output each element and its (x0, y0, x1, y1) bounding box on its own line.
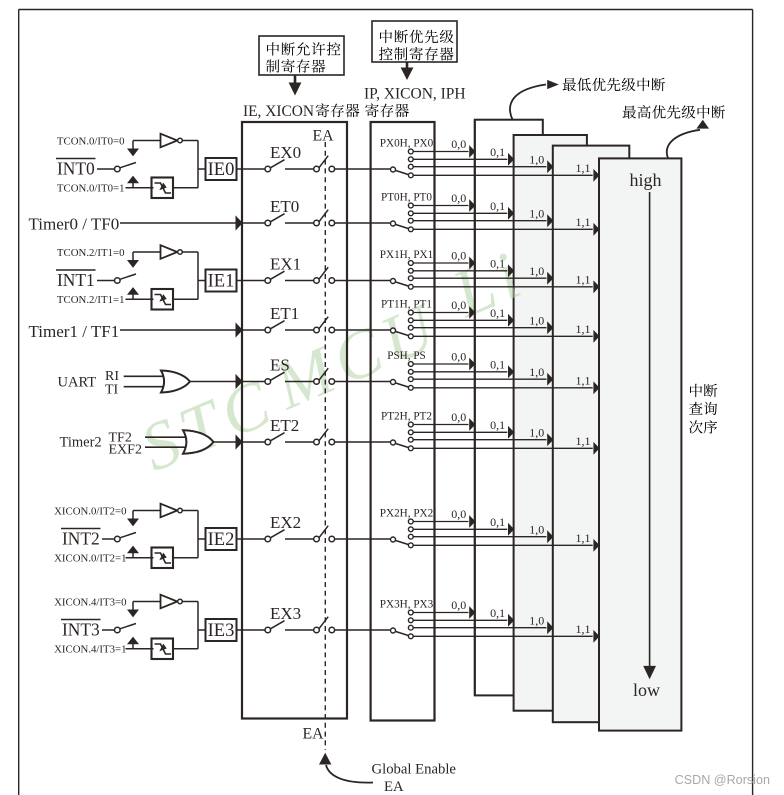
selector pole PT0H, PT0 (391, 221, 409, 229)
switch INT1 edge/level select (115, 274, 137, 283)
wire ET1 to EA switch (285, 329, 314, 331)
wire RI input (124, 375, 166, 377)
svg-text:1,0: 1,0 (529, 206, 544, 220)
label EX1 0,1 (490, 257, 505, 271)
label EX1 1,0 (529, 264, 544, 278)
svg-text:1,0: 1,0 (529, 522, 544, 536)
wire join vertical (197, 252, 199, 299)
down arrow level select (127, 252, 139, 268)
svg-text:1,1: 1,1 (576, 215, 591, 229)
interrupt-enable register callout box (259, 36, 344, 75)
wire ET2 priority 0,0 (413, 418, 475, 431)
switch EA row ES (314, 368, 335, 384)
IE2 flag box (206, 528, 237, 550)
switch ET0 (265, 214, 285, 226)
switch ES (265, 372, 285, 384)
label ES 1,0 (529, 365, 544, 379)
label ET2 1,0 (529, 425, 544, 439)
switch ET1 (265, 321, 285, 333)
wire top level path (133, 510, 161, 512)
svg-text:XICON.0/IT2=0: XICON.0/IT2=0 (54, 506, 126, 518)
svg-text:INT1: INT1 (57, 270, 95, 290)
wire Timer0 to IE box (120, 215, 243, 230)
priority queue box 1,1 (599, 158, 681, 730)
lowest priority label (563, 78, 665, 91)
label ET0 0,0 (451, 191, 466, 205)
selector label PX2H, PX2 (380, 508, 433, 520)
falling-edge detector INT3 (152, 639, 174, 660)
label ES 0,0 (451, 350, 466, 364)
svg-text:IE3: IE3 (208, 621, 235, 641)
wire into ET2 switch (242, 441, 265, 443)
switch EA row ET0 (314, 210, 335, 226)
svg-text:PSH, PS: PSH, PS (387, 350, 426, 362)
wire ET1 priority 1,0 (413, 321, 553, 334)
wire into ES switch (242, 381, 265, 383)
wire EX1 priority 0,1 (413, 264, 514, 277)
INT1 input name (56, 270, 96, 290)
label EX1 0,0 (451, 249, 466, 263)
down arrow level select (127, 602, 139, 618)
INT3 input name (61, 620, 101, 640)
svg-text:XICON.4/IT3=1: XICON.4/IT3=1 (54, 643, 126, 655)
wire to IE2 box (198, 538, 206, 540)
priority queue box 0,0 (475, 120, 543, 696)
wire into ET0 switch (242, 222, 265, 224)
wire ET0 priority 0,0 (413, 199, 475, 212)
wire Timer2 gate to IE box (214, 434, 243, 449)
svg-text:PT2H, PT2: PT2H, PT2 (381, 411, 432, 423)
interrupt-priority callout text (379, 30, 454, 61)
label EX1 1,1 (576, 273, 591, 287)
label ET0 1,1 (576, 215, 591, 229)
wire ET2 priority 1,1 (413, 442, 599, 455)
switch ET1 label (270, 304, 299, 323)
wire ES to EA switch (285, 381, 314, 383)
svg-text:0,0: 0,0 (451, 137, 466, 151)
label ET1 0,0 (451, 298, 466, 312)
label ES 0,1 (490, 358, 505, 372)
selector pole PT2H, PT2 (391, 440, 409, 448)
Timer0/TF0 source label (29, 215, 120, 234)
high label (629, 170, 661, 190)
label TCON.0=1 (57, 182, 125, 194)
IE/XICON register box (242, 122, 347, 719)
wire join vertical (197, 602, 199, 649)
selector contacts PT1H, PT1 (408, 310, 413, 339)
Global Enable EA text (384, 779, 404, 795)
svg-text:IP, XICON, IPH: IP, XICON, IPH (364, 86, 466, 103)
wire ET1 priority 1,1 (413, 330, 599, 343)
selector label PT0H, PT0 (381, 192, 432, 204)
svg-text:INT3: INT3 (62, 620, 100, 640)
wire top level path (133, 140, 161, 142)
wire bottom edge path (126, 557, 154, 559)
label XICON.4=1 (54, 643, 126, 655)
up arrow edge select (127, 287, 139, 299)
wire to IE0 box (198, 168, 206, 170)
EA label bottom (303, 726, 325, 743)
label TCON.0=0 (57, 136, 125, 148)
wire top level path (133, 601, 161, 603)
wire EXF2 input (145, 446, 189, 448)
or-gate U-uart (161, 371, 190, 393)
highest priority pointer (667, 120, 709, 158)
svg-text:0,1: 0,1 (490, 418, 505, 432)
switch EA row ET2 (314, 429, 335, 445)
wire EX1 priority 1,0 (413, 272, 553, 285)
wire bottom edge path (126, 648, 154, 650)
label ET2 1,1 (576, 434, 591, 448)
svg-text:0,1: 0,1 (490, 199, 505, 213)
wire top level path (133, 251, 161, 253)
svg-text:TCON.0/IT0=1: TCON.0/IT0=1 (57, 182, 125, 194)
selector contacts PT0H, PT0 (408, 203, 413, 232)
selector pole PT1H, PT1 (391, 328, 409, 336)
RI label (105, 369, 119, 384)
switch EX1 label (270, 255, 301, 274)
watermark MCU (262, 287, 451, 425)
wire ES priority 1,0 (413, 373, 553, 386)
label EX0 0,0 (451, 137, 466, 151)
inverter INT1 (161, 245, 183, 259)
switch EA row EX0 (314, 156, 335, 172)
svg-text:XICON.0/IT2=1: XICON.0/IT2=1 (54, 552, 126, 564)
label ET0 0,1 (490, 199, 505, 213)
svg-text:1,1: 1,1 (576, 531, 591, 545)
wire bottom edge path (126, 187, 154, 189)
svg-text:ET2: ET2 (270, 416, 299, 435)
svg-text:0,1: 0,1 (490, 515, 505, 529)
svg-text:ES: ES (270, 356, 290, 375)
svg-text:TI: TI (105, 383, 119, 398)
selector pole PSH, PS (391, 380, 409, 388)
svg-text:UART: UART (58, 375, 97, 391)
IE1 flag box (206, 270, 237, 292)
label EX2 1,0 (529, 522, 544, 536)
svg-text:1,1: 1,1 (576, 622, 591, 636)
label EX2 0,0 (451, 507, 466, 521)
switch EA row EX3 (314, 617, 335, 633)
svg-text:INT0: INT0 (57, 159, 95, 179)
svg-text:Timer0 / TF0: Timer0 / TF0 (29, 215, 120, 234)
svg-text:EX2: EX2 (270, 513, 301, 532)
switch EX2 (265, 530, 285, 542)
low label (633, 680, 660, 700)
interrupt-enable callout text (266, 42, 340, 73)
svg-text:1,1: 1,1 (576, 374, 591, 388)
wire Timer1 to IE box (120, 322, 243, 337)
priority queue box 0,1 (514, 135, 587, 711)
svg-text:0,1: 0,1 (490, 145, 505, 159)
arrow from priority callout (401, 62, 414, 80)
wire UART gate to IE box (190, 374, 243, 389)
svg-text:low: low (633, 680, 660, 700)
svg-text:IE2: IE2 (208, 530, 235, 550)
selector pole PX2H, PX2 (391, 537, 409, 545)
svg-text:high: high (629, 170, 661, 190)
down arrow level select (127, 511, 139, 527)
label EX3 1,1 (576, 622, 591, 636)
svg-text:EA: EA (313, 128, 335, 145)
EA label top (313, 128, 335, 145)
svg-text:1,0: 1,0 (529, 365, 544, 379)
label XICON.4=0 (54, 597, 126, 609)
svg-text:1,1: 1,1 (576, 434, 591, 448)
watermark STC (130, 362, 287, 486)
frame left border (18, 10, 20, 795)
svg-text:PX2H, PX2: PX2H, PX2 (380, 508, 433, 520)
wire into EX3 switch (242, 629, 265, 631)
switch ES label (270, 356, 290, 375)
wire ES to priority selector (335, 381, 391, 383)
wire inverter out (182, 251, 198, 253)
wire into EX0 switch (242, 168, 265, 170)
wire IE1 to IE box (237, 280, 243, 282)
wire EX2 priority 0,1 (413, 523, 514, 536)
falling-edge detector INT2 (152, 548, 174, 569)
TF2 label (109, 431, 132, 446)
selector contacts PX1H, PX1 (408, 261, 413, 290)
wire IE3 to IE box (237, 629, 243, 631)
wire IE2 to IE box (237, 538, 243, 540)
wire ET0 to EA switch (285, 222, 314, 224)
switch EX2 label (270, 513, 301, 532)
svg-text:PX1H, PX1: PX1H, PX1 (380, 249, 433, 261)
interrupt-priority register callout box (372, 21, 457, 62)
svg-text:0,0: 0,0 (451, 298, 466, 312)
IP/XICON/IPH register box (371, 122, 435, 721)
wire into ET1 switch (242, 329, 265, 331)
wire ET2 to priority selector (335, 441, 391, 443)
switch INT2 edge/level select (115, 533, 137, 542)
wire into EX1 switch (242, 280, 265, 282)
Global Enable text (372, 762, 457, 778)
svg-text:1,0: 1,0 (529, 313, 544, 327)
wire IE0 to IE box (237, 168, 243, 170)
TI label (105, 383, 119, 398)
label EX3 0,1 (490, 606, 505, 620)
svg-text:PX3H, PX3: PX3H, PX3 (380, 599, 434, 611)
wire edge detector out (173, 187, 198, 189)
wire EX2 to priority selector (335, 538, 391, 540)
svg-text:0,0: 0,0 (451, 410, 466, 424)
svg-text:EX3: EX3 (270, 604, 301, 623)
IP register box fill (371, 122, 435, 721)
switch EX0 (265, 160, 285, 172)
label EX2 0,1 (490, 515, 505, 529)
arrow from enable callout (289, 75, 302, 96)
svg-text:Timer2: Timer2 (60, 435, 102, 451)
frame right border (752, 10, 754, 795)
wire ES priority 0,0 (413, 358, 475, 371)
wire inverter out (182, 510, 198, 512)
wire ET2 to EA switch (285, 441, 314, 443)
svg-text:0,0: 0,0 (451, 507, 466, 521)
wire TF2 input (145, 436, 189, 438)
label ET0 1,0 (529, 206, 544, 220)
switch EX3 label (270, 604, 301, 623)
falling-edge detector INT0 (152, 178, 174, 199)
wire EX0 to priority selector (335, 168, 391, 170)
wire EX3 priority 0,0 (413, 606, 475, 619)
wire EX1 priority 1,1 (413, 280, 599, 293)
switch ET0 label (270, 197, 299, 216)
inverter INT0 (161, 134, 183, 148)
frame top border (19, 9, 753, 11)
svg-text:0,0: 0,0 (451, 191, 466, 205)
svg-text:1,0: 1,0 (529, 425, 544, 439)
selector contacts PX0H, PX0 (408, 149, 413, 178)
EXF2 label (109, 443, 142, 458)
wire edge detector out (173, 648, 198, 650)
selector pole PX0H, PX0 (391, 167, 409, 175)
or-gate U-timer2 (183, 430, 214, 453)
priority order arrow (643, 192, 656, 679)
wire EX3 priority 1,1 (413, 630, 599, 643)
svg-text:XICON.4/IT3=0: XICON.4/IT3=0 (54, 597, 126, 609)
wire EX0 priority 1,1 (413, 169, 599, 182)
wire ET0 priority 0,1 (413, 207, 514, 220)
INT0 input name (56, 159, 96, 179)
wire ET1 priority 0,1 (413, 314, 514, 327)
wire ET1 priority 0,0 (413, 306, 475, 319)
label ES 1,1 (576, 374, 591, 388)
label EX0 1,0 (529, 152, 544, 166)
svg-text:Timer1 / TF1: Timer1 / TF1 (29, 322, 120, 341)
wire inverter out (182, 140, 198, 142)
wire INT2 to switch (102, 538, 115, 540)
svg-text:EA: EA (384, 779, 404, 795)
svg-text:0,0: 0,0 (451, 350, 466, 364)
wire EX3 priority 0,1 (413, 614, 514, 627)
wire bottom edge path (126, 298, 154, 300)
svg-text:CSDN @Rorsion: CSDN @Rorsion (675, 773, 770, 787)
IE3 flag box (206, 619, 237, 641)
wire EX0 to EA switch (285, 168, 314, 170)
wire EX3 to EA switch (285, 629, 314, 631)
label ET1 1,1 (576, 322, 591, 336)
switch INT3 edge/level select (115, 624, 137, 633)
highest priority label (623, 105, 725, 119)
interrupt poll order label (689, 384, 717, 434)
label TCON.2=0 (57, 247, 125, 259)
wire ET0 priority 1,1 (413, 223, 599, 236)
wire EX0 priority 0,1 (413, 153, 514, 166)
svg-text:0,1: 0,1 (490, 257, 505, 271)
svg-text:0,0: 0,0 (451, 598, 466, 612)
switch EX0 label (270, 143, 301, 162)
Timer1/TF1 source label (29, 322, 120, 341)
svg-text:EX1: EX1 (270, 255, 301, 274)
wire ET2 priority 1,0 (413, 433, 553, 446)
priority queue box 1,0 (553, 146, 630, 723)
switch EA row ET1 (314, 317, 335, 333)
watermark Li (441, 234, 537, 332)
svg-text:IE0: IE0 (208, 160, 235, 180)
wire to IE1 box (198, 280, 206, 282)
svg-text:EX0: EX0 (270, 143, 301, 162)
wire inverter out (182, 601, 198, 603)
wire join vertical (197, 141, 199, 188)
global enable pointer (319, 753, 373, 783)
wire ET0 to priority selector (335, 222, 391, 224)
EA global-enable dashed line (324, 142, 326, 750)
switch EX3 (265, 621, 285, 633)
wire ET1 to priority selector (335, 329, 391, 331)
wire INT3 to switch (102, 629, 115, 631)
CSDN watermark (675, 773, 770, 787)
label ET1 1,0 (529, 313, 544, 327)
svg-text:1,1: 1,1 (576, 273, 591, 287)
wire EX0 priority 1,0 (413, 160, 553, 173)
svg-text:0,0: 0,0 (451, 249, 466, 263)
label EX3 0,0 (451, 598, 466, 612)
svg-text:ET1: ET1 (270, 304, 299, 323)
down arrow level select (127, 141, 139, 157)
switch EX1 (265, 271, 285, 283)
wire EX1 priority 0,0 (413, 257, 475, 270)
Timer2 source label (60, 435, 102, 451)
svg-text:1,0: 1,0 (529, 264, 544, 278)
selector label PSH, PS (387, 350, 426, 362)
wire TI input (124, 386, 166, 388)
selector pole PX3H, PX3 (391, 628, 409, 636)
INT2 input name (61, 529, 101, 549)
label ET1 0,1 (490, 306, 505, 320)
svg-text:EA: EA (303, 726, 325, 743)
label XICON.0=1 (54, 552, 126, 564)
wire EX2 priority 1,0 (413, 530, 553, 543)
wire EX1 to priority selector (335, 280, 391, 282)
svg-text:1,0: 1,0 (529, 613, 544, 627)
selector contacts PT2H, PT2 (408, 422, 413, 451)
wire INT1 to switch (97, 280, 115, 282)
up arrow edge select (127, 176, 139, 188)
svg-text:Global Enable: Global Enable (372, 762, 457, 778)
wire EX2 priority 0,0 (413, 515, 475, 528)
label TCON.2=1 (57, 294, 125, 306)
selector pole PX1H, PX1 (391, 279, 409, 287)
wire EX3 to priority selector (335, 629, 391, 631)
svg-text:1,1: 1,1 (576, 161, 591, 175)
inverter INT3 (161, 595, 183, 609)
IE0 flag box (206, 158, 237, 180)
selector label PT2H, PT2 (381, 411, 432, 423)
svg-text:TCON.2/IT1=1: TCON.2/IT1=1 (57, 294, 125, 306)
svg-text:TCON.0/IT0=0: TCON.0/IT0=0 (57, 136, 125, 148)
wire EX2 priority 1,1 (413, 539, 599, 552)
IE XICON register label (243, 103, 359, 120)
IP XICON IPH register label (364, 86, 466, 118)
wire edge detector out (173, 298, 198, 300)
wire ES priority 1,1 (413, 381, 599, 394)
wire EX2 to EA switch (285, 538, 314, 540)
switch EA row EX1 (314, 267, 335, 283)
up arrow edge select (127, 546, 139, 558)
inverter INT2 (161, 504, 183, 518)
wire to IE3 box (198, 629, 206, 631)
svg-text:PT0H, PT0: PT0H, PT0 (381, 192, 432, 204)
svg-text:IE1: IE1 (208, 272, 235, 292)
switch EA row EX2 (314, 526, 335, 542)
svg-text:INT2: INT2 (62, 529, 100, 549)
label EX0 0,1 (490, 145, 505, 159)
priority queue box 0,0 left edge (474, 120, 476, 696)
switch ET2 label (270, 416, 299, 435)
svg-text:PX0H, PX0: PX0H, PX0 (380, 138, 434, 150)
wire EX3 priority 1,0 (413, 621, 553, 634)
